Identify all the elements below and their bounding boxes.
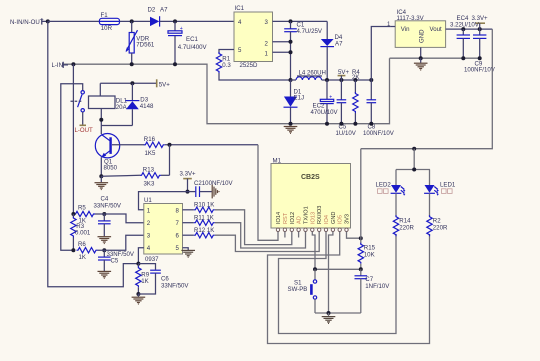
- svg-text:220R: 220R: [433, 224, 448, 231]
- ground under IC4: [414, 58, 428, 70]
- wire LED feed: [396, 149, 430, 170]
- LED2 blue: [376, 170, 406, 217]
- svg-text:L-OUT: L-OUT: [75, 127, 94, 134]
- wire IC1 pin5 to R1: [219, 50, 234, 54]
- switch S1 SW-PB: [288, 269, 317, 313]
- svg-text:D2: D2: [148, 7, 156, 14]
- transistor Q1 8050: [95, 134, 119, 172]
- resistor R9 1K: [136, 264, 150, 294]
- power 3.3V+ mid: [180, 171, 197, 192]
- svg-text:IO14: IO14: [276, 212, 282, 224]
- node return rail R4: [353, 122, 357, 126]
- svg-text:3.3V+: 3.3V+: [180, 171, 197, 178]
- node L-IN: [71, 62, 75, 66]
- node R15 bottom / C7: [359, 267, 363, 271]
- node 3V3/R15: [359, 236, 363, 240]
- wire U1 pin4 from R9 node: [138, 248, 143, 264]
- svg-text:A7: A7: [160, 7, 168, 14]
- node 5V rail left: [289, 78, 293, 82]
- wire R16 junction down to R13: [169, 145, 171, 176]
- svg-text:U1: U1: [144, 197, 152, 204]
- svg-text:LED2: LED2: [376, 182, 392, 189]
- ground Q1 emitter: [95, 176, 109, 189]
- resistor R4 2K: [352, 69, 360, 124]
- svg-text:Vout: Vout: [430, 26, 443, 33]
- relay contact switch: [71, 91, 85, 112]
- wire switch top rail: [315, 268, 361, 270]
- resistor R13 3K3: [140, 167, 170, 188]
- svg-text:Vin: Vin: [401, 26, 410, 33]
- svg-text:TX/IO1: TX/IO1: [304, 206, 310, 224]
- port N-IN/N-OUT: [10, 18, 47, 26]
- svg-text:GND: GND: [419, 29, 426, 43]
- capacitor C1 4.7U/25V: [284, 21, 323, 80]
- diode D1 E1J: [284, 80, 305, 124]
- node return rail C8: [369, 122, 373, 126]
- node return rail D1: [289, 122, 293, 126]
- wire R12 to RX/IO3: [215, 232, 319, 252]
- resistor R6 1K: [77, 241, 98, 261]
- svg-text:C5: C5: [111, 258, 119, 265]
- node VDR top: [130, 19, 134, 23]
- wire emitter to R13: [101, 175, 140, 176]
- wire R11 to TX/IO1: [215, 223, 306, 248]
- node pin2: [289, 40, 293, 44]
- svg-text:3V3: 3V3: [345, 214, 351, 224]
- svg-text:IC1: IC1: [235, 5, 245, 12]
- resistor R11 1K: [183, 214, 215, 225]
- ground U1 pin5: [181, 248, 195, 257]
- node VDR bottom: [130, 62, 134, 66]
- wire 5V relay rail: [100, 83, 156, 96]
- svg-text:C7: C7: [365, 276, 373, 283]
- svg-text:R13: R13: [143, 167, 155, 174]
- svg-text:F1: F1: [101, 12, 109, 19]
- wire R6 right to U1 pin3: [98, 235, 144, 250]
- wire AD stub: [298, 232, 300, 238]
- node R5 right / C4: [102, 212, 106, 216]
- wire fuse to D2: [120, 20, 151, 22]
- svg-text:4.7U/25V: 4.7U/25V: [297, 28, 323, 35]
- svg-text:N-IN/N-OUT: N-IN/N-OUT: [10, 19, 44, 26]
- svg-text:IO5: IO5: [338, 215, 344, 224]
- svg-text:R10 1K: R10 1K: [194, 202, 214, 209]
- port L-IN: [52, 62, 69, 69]
- svg-text:E1J: E1J: [294, 95, 305, 102]
- svg-text:R12 1K: R12 1K: [194, 227, 214, 234]
- svg-text:20A: 20A: [116, 104, 128, 111]
- svg-text:IO4: IO4: [324, 215, 330, 224]
- capacitor C5a 1U/10V: [336, 80, 357, 137]
- resistor R16 1K5: [144, 136, 165, 157]
- svg-text:33NF/50V: 33NF/50V: [161, 282, 189, 289]
- svg-text:CB2S: CB2S: [301, 174, 320, 181]
- svg-text:R11 1K: R11 1K: [194, 214, 214, 221]
- wire C2 node to U1 pin1: [139, 192, 188, 210]
- wire L-IN divider drop: [72, 64, 74, 214]
- svg-text:470U/10V: 470U/10V: [311, 109, 339, 116]
- svg-text:R6: R6: [78, 241, 86, 248]
- node gnd rail: [327, 311, 331, 315]
- node R6 right / C5: [102, 248, 106, 252]
- capacitor EC4 3.22U/10V: [450, 15, 480, 58]
- U1 0937 box: [144, 197, 183, 263]
- ground under C4: [98, 237, 112, 244]
- svg-text:2K: 2K: [352, 74, 359, 81]
- svg-text:C2100NF/10V: C2100NF/10V: [194, 180, 234, 187]
- diode D4 A7: [320, 21, 343, 80]
- svg-text:R2: R2: [433, 217, 441, 224]
- svg-text:220R: 220R: [399, 224, 414, 231]
- wire R16 to IO14 riser: [165, 144, 258, 146]
- node R4 top: [353, 78, 357, 82]
- svg-text:AD: AD: [297, 216, 303, 224]
- wire top rail N to fuse: [48, 20, 100, 22]
- node R5 left: [71, 212, 75, 216]
- resistor R12 1K: [183, 227, 215, 238]
- wire relay contact loop: [61, 84, 83, 251]
- capacitor C7 1NF/10V: [355, 269, 391, 313]
- wire relay bottom to Q1 collector: [100, 109, 102, 135]
- svg-text:1K: 1K: [141, 278, 148, 285]
- svg-text:4: 4: [147, 245, 151, 252]
- node C2: [186, 190, 190, 194]
- svg-text:4.7U/400V: 4.7U/400V: [178, 44, 208, 51]
- capacitor C8 100NF/10V: [363, 80, 395, 137]
- capacitor C4 33NF/50V: [94, 196, 122, 237]
- svg-text:R16: R16: [144, 136, 156, 143]
- capacitor C2 100NF/10V: [188, 180, 234, 197]
- svg-text:1117-3.3V: 1117-3.3V: [397, 15, 425, 22]
- wire IC1 pin1 riser: [273, 51, 291, 53]
- svg-text:8050: 8050: [104, 164, 118, 171]
- svg-text:10R: 10R: [101, 25, 113, 32]
- wire GND drop: [329, 232, 333, 314]
- capacitor C9 100NF/10V: [464, 29, 496, 73]
- node EC1 top: [173, 19, 177, 23]
- svg-text:A7: A7: [335, 41, 343, 48]
- svg-text:33NF/50V: 33NF/50V: [94, 203, 122, 210]
- svg-text:1: 1: [147, 207, 151, 214]
- ground under R9: [132, 294, 146, 304]
- svg-text:RX/IO3: RX/IO3: [317, 206, 323, 224]
- node R16/R13: [168, 143, 172, 147]
- svg-text:100NF/10V: 100NF/10V: [363, 130, 395, 137]
- svg-text:LED1: LED1: [440, 182, 456, 189]
- node return rail C5a: [339, 122, 343, 126]
- wire switch gnd rail: [315, 312, 361, 314]
- svg-text:+: +: [180, 26, 183, 32]
- svg-text:1: 1: [387, 21, 391, 28]
- node D3 top: [130, 81, 134, 85]
- pads M1: [276, 228, 348, 231]
- node C9 bottom: [478, 56, 482, 60]
- node R9 top: [136, 262, 140, 266]
- port L-OUT: [75, 112, 94, 134]
- svg-text:2: 2: [147, 220, 151, 227]
- wire Q1 base to R16: [112, 144, 144, 146]
- resistor R1 0.3: [216, 52, 231, 73]
- capacitor C6 33NF/50V: [138, 264, 189, 294]
- wire R5 right to U1 pin2: [95, 214, 144, 223]
- svg-text:0937: 0937: [145, 256, 159, 263]
- wire 3.3V riser down to R15: [360, 149, 362, 239]
- power 5V+ relay: [157, 79, 171, 88]
- svg-text:3: 3: [147, 233, 151, 240]
- wire return rail: [64, 58, 390, 124]
- wire IC4 gnd rail: [390, 57, 480, 59]
- node D4/EC2: [325, 78, 329, 82]
- node R9 bottom: [136, 292, 140, 296]
- wire RST stub: [284, 232, 286, 238]
- node R6 left: [71, 248, 75, 252]
- svg-text:R15: R15: [364, 244, 376, 251]
- svg-text:10K: 10K: [364, 251, 375, 258]
- capacitor EC1 4.7U/400V: [168, 21, 208, 64]
- svg-text:L-IN: L-IN: [52, 62, 64, 69]
- wire R10 to IO12: [215, 210, 292, 245]
- node pin1: [289, 50, 293, 54]
- capacitor C5 33NF/50V: [98, 250, 135, 271]
- node return rail EC2: [325, 122, 329, 126]
- node EC1 bottom: [173, 62, 177, 66]
- wire IC1 pin2 riser: [273, 41, 291, 43]
- ground under M1: [322, 313, 336, 323]
- IC1 2525D box: [234, 5, 273, 69]
- relay coil DL1 20A: [89, 96, 128, 111]
- wire IC1 pin3 to C1/D4: [273, 20, 328, 22]
- svg-text:3K3: 3K3: [144, 180, 155, 187]
- wire Vin riser to IC4: [371, 27, 390, 81]
- wire D3 return: [101, 125, 132, 127]
- svg-text:M1: M1: [273, 157, 282, 164]
- svg-text:7D561: 7D561: [136, 42, 155, 49]
- node LED split: [412, 168, 416, 172]
- wire R1 bottom to 5V rail: [219, 73, 291, 80]
- wire 3.3V long riser: [361, 29, 493, 149]
- resistor R15 10K: [358, 238, 375, 269]
- node LED branch top: [412, 147, 416, 151]
- wire 3V3 to R15: [347, 232, 361, 239]
- wire Q1 emitter: [100, 157, 102, 176]
- svg-text:0.3: 0.3: [222, 62, 231, 69]
- node N-IN junction: [46, 19, 50, 23]
- node EC4 top: [461, 27, 465, 31]
- node C5a/5V: [339, 78, 343, 82]
- wire IO4 to LED2 return: [279, 232, 397, 334]
- power 5V+ at rail: [338, 69, 350, 80]
- inductor L4 260UH: [291, 70, 328, 81]
- svg-text:IO12: IO12: [290, 212, 296, 224]
- svg-text:+: +: [329, 94, 332, 100]
- resistor R10 1K: [183, 202, 215, 213]
- svg-text:5V+: 5V+: [159, 81, 170, 88]
- M1 CB2S module box: [271, 157, 351, 228]
- node EC4 bottom: [461, 56, 465, 60]
- wire IO5 to LED1 return: [268, 232, 430, 344]
- node relay/D3: [99, 118, 103, 122]
- node emitter: [99, 174, 103, 178]
- svg-text:EC1: EC1: [186, 36, 198, 43]
- svg-text:C6: C6: [161, 275, 169, 282]
- svg-text:1K5: 1K5: [145, 150, 156, 157]
- svg-text:1U/10V: 1U/10V: [336, 130, 357, 137]
- wire D2 to IC1 pin4: [160, 20, 234, 22]
- svg-text:4148: 4148: [140, 103, 154, 110]
- resistor R14 220R: [393, 215, 414, 236]
- ground under D1: [284, 127, 298, 134]
- diode D2 A7: [148, 7, 169, 27]
- svg-text:L4 260UH: L4 260UH: [299, 70, 326, 77]
- diode D3 4148: [125, 83, 154, 125]
- svg-text:1K: 1K: [79, 254, 86, 261]
- wire 5V rail: [327, 79, 371, 81]
- svg-text:RST: RST: [283, 212, 289, 224]
- svg-text:SW-PB: SW-PB: [288, 286, 308, 293]
- ground right of C2: [212, 185, 219, 199]
- node switch top: [313, 267, 317, 271]
- node C1 top: [289, 19, 293, 23]
- capacitor EC2 470U/10V: [311, 80, 339, 124]
- svg-text:0.001: 0.001: [75, 230, 91, 237]
- svg-text:R5: R5: [78, 204, 86, 211]
- fuse F1: [99, 12, 119, 32]
- wire Vout rail: [451, 28, 493, 30]
- svg-text:GND: GND: [331, 212, 337, 224]
- resistor R5 1K: [74, 204, 95, 224]
- svg-text:1NF/10V: 1NF/10V: [365, 283, 390, 290]
- ground under C5: [98, 271, 112, 278]
- wire IO13 to switch: [312, 232, 315, 270]
- resistor R3 0.001: [71, 214, 91, 250]
- IC4 1117-3.3V box: [387, 9, 451, 58]
- power 3.3V+ right: [472, 15, 489, 29]
- svg-text:100NF/10V: 100NF/10V: [464, 67, 496, 74]
- wire N-IN sense loop: [48, 21, 139, 286]
- resistor R2 220R: [427, 215, 448, 236]
- svg-text:R14: R14: [399, 217, 411, 224]
- wire IO14 to R16 riser: [258, 145, 278, 241]
- svg-text:IO13: IO13: [310, 212, 316, 224]
- node C9 top: [478, 27, 482, 31]
- varistor VDR 7D561: [126, 21, 155, 64]
- svg-text:3.22U/10V: 3.22U/10V: [450, 21, 480, 28]
- LED1 red: [424, 170, 456, 217]
- node IC4 gnd: [419, 56, 423, 60]
- svg-text:2525D: 2525D: [240, 62, 259, 69]
- node C8/Vin: [369, 78, 373, 82]
